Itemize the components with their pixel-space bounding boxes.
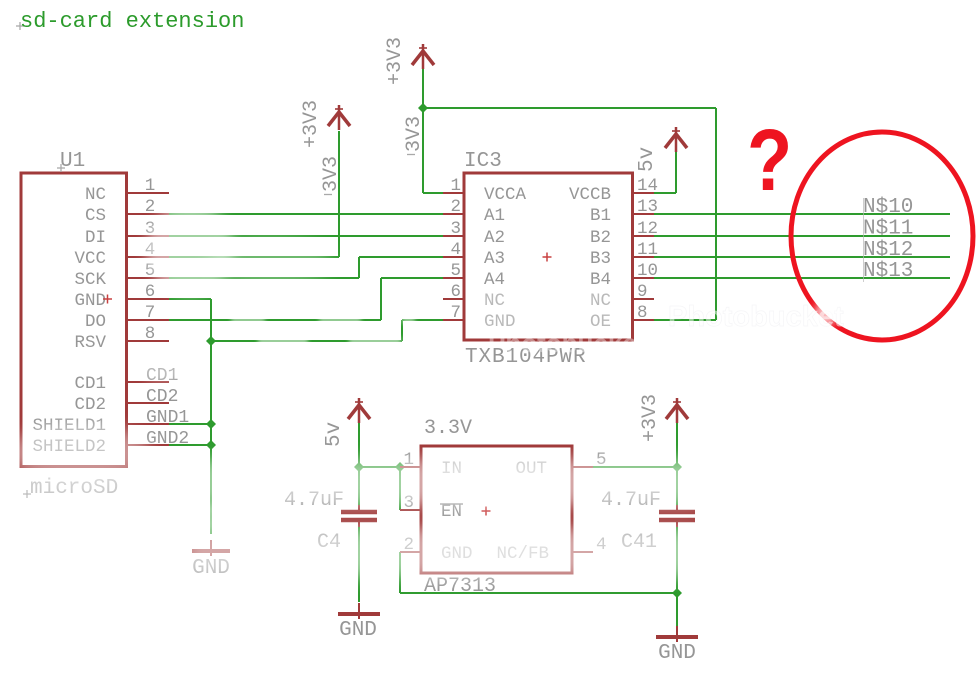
svg-text:8: 8 xyxy=(145,324,156,344)
svg-text:CD2: CD2 xyxy=(74,395,106,415)
svg-text:1: 1 xyxy=(450,176,461,196)
svg-text:+3V3: +3V3 xyxy=(384,37,407,85)
svg-text:5v: 5v xyxy=(323,422,346,447)
svg-text:9: 9 xyxy=(637,282,648,302)
svg-text:7: 7 xyxy=(145,303,156,323)
svg-text:NC: NC xyxy=(85,185,106,205)
svg-text:A3: A3 xyxy=(484,249,505,269)
svg-text:1: 1 xyxy=(145,176,156,196)
svg-text:5v: 5v xyxy=(636,147,659,172)
svg-text:14: 14 xyxy=(637,176,658,196)
svg-text:10: 10 xyxy=(637,261,658,281)
svg-text:8: 8 xyxy=(637,303,648,323)
svg-text:N$10: N$10 xyxy=(863,196,913,219)
svg-text:CD2: CD2 xyxy=(146,387,178,407)
svg-text:13: 13 xyxy=(637,197,658,217)
svg-text:AP7313: AP7313 xyxy=(424,575,496,598)
svg-text:B4: B4 xyxy=(590,270,611,290)
svg-text:B2: B2 xyxy=(590,228,611,248)
svg-text:Photobucket: Photobucket xyxy=(488,328,646,358)
svg-text:U1: U1 xyxy=(60,150,85,173)
svg-text:5: 5 xyxy=(450,261,461,281)
svg-text:IC3: IC3 xyxy=(464,150,502,173)
svg-text:B1: B1 xyxy=(590,206,611,226)
svg-text:A2: A2 xyxy=(484,228,505,248)
svg-text:4: 4 xyxy=(450,240,461,260)
svg-text:?: ? xyxy=(747,112,792,209)
svg-text:SCK: SCK xyxy=(74,270,106,290)
svg-text:GND: GND xyxy=(658,642,696,665)
svg-text:N$12: N$12 xyxy=(863,239,913,262)
svg-text:N$13: N$13 xyxy=(863,260,913,283)
svg-text:sd-card extension: sd-card extension xyxy=(20,9,244,34)
svg-text:3: 3 xyxy=(450,219,461,239)
svg-text:6: 6 xyxy=(450,282,461,302)
svg-text:2: 2 xyxy=(145,197,156,217)
svg-text:B3: B3 xyxy=(590,249,611,269)
svg-text:VCCA: VCCA xyxy=(484,185,527,205)
svg-text:6: 6 xyxy=(145,282,156,302)
svg-text:2: 2 xyxy=(450,197,461,217)
svg-text:GND: GND xyxy=(74,291,106,311)
svg-text:DO: DO xyxy=(85,312,106,332)
svg-text:3.3V: 3.3V xyxy=(424,417,472,440)
svg-text:A4: A4 xyxy=(484,270,505,290)
svg-text:3V3: 3V3 xyxy=(403,116,426,152)
svg-text:VCC: VCC xyxy=(74,249,106,269)
svg-text:VCCB: VCCB xyxy=(569,185,611,205)
svg-text:NC: NC xyxy=(484,291,505,311)
svg-text:7: 7 xyxy=(450,303,461,323)
svg-text:+3V3: +3V3 xyxy=(300,100,323,148)
svg-text:GND: GND xyxy=(339,619,377,642)
svg-text:RSV: RSV xyxy=(74,333,106,353)
svg-text:12: 12 xyxy=(637,219,658,239)
svg-text:CD1: CD1 xyxy=(74,374,106,394)
svg-text:DI: DI xyxy=(85,228,106,248)
svg-text:CS: CS xyxy=(85,206,106,226)
svg-text:GND1: GND1 xyxy=(146,408,189,428)
svg-text:3V3: 3V3 xyxy=(320,156,343,192)
svg-text:11: 11 xyxy=(637,240,658,260)
svg-text:NC: NC xyxy=(590,291,611,311)
svg-text:A1: A1 xyxy=(484,206,505,226)
svg-text:N$11: N$11 xyxy=(863,218,913,241)
svg-text:+3V3: +3V3 xyxy=(639,394,662,442)
svg-text:GND2: GND2 xyxy=(146,429,189,449)
